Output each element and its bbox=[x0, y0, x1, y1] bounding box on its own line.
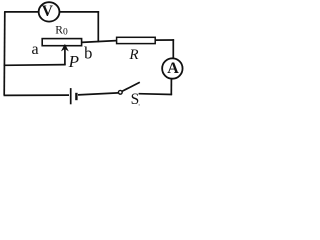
rheostat R0 body bbox=[42, 39, 81, 46]
wire down to ammeter bbox=[172, 39, 174, 57]
svg-text:b: b bbox=[84, 44, 92, 63]
svg-text:V: V bbox=[42, 3, 54, 20]
svg-text:S: S bbox=[131, 91, 140, 108]
battery long plate bbox=[70, 88, 72, 104]
wire top left segment bbox=[4, 11, 38, 13]
svg-text:a: a bbox=[31, 41, 38, 58]
voltmeter V bbox=[39, 2, 60, 21]
artifact dot after S bbox=[139, 104, 140, 105]
switch S pivot bbox=[118, 90, 122, 94]
switch S blade bbox=[122, 82, 140, 91]
wire bottom mid (battery to switch) bbox=[78, 93, 118, 95]
battery short plate bbox=[75, 93, 77, 100]
wire bottom right horizontal bbox=[139, 93, 173, 96]
wire left vertical bbox=[3, 12, 6, 96]
slider arrow P bbox=[64, 48, 66, 65]
svg-text:R: R bbox=[128, 47, 138, 63]
wire right upper vertical bbox=[97, 11, 99, 42]
ammeter A bbox=[162, 58, 182, 78]
wire ammeter bottom bbox=[170, 79, 172, 95]
wire bottom left (to battery) bbox=[4, 94, 69, 96]
wire resistor R to corner bbox=[155, 39, 175, 41]
resistor R body bbox=[117, 37, 156, 43]
wire rheostat b to resistor R bbox=[82, 41, 117, 43]
wire top right segment bbox=[60, 11, 99, 13]
wire slider horizontal bbox=[4, 64, 66, 67]
svg-text:P: P bbox=[68, 52, 79, 71]
svg-text:A: A bbox=[167, 60, 179, 77]
